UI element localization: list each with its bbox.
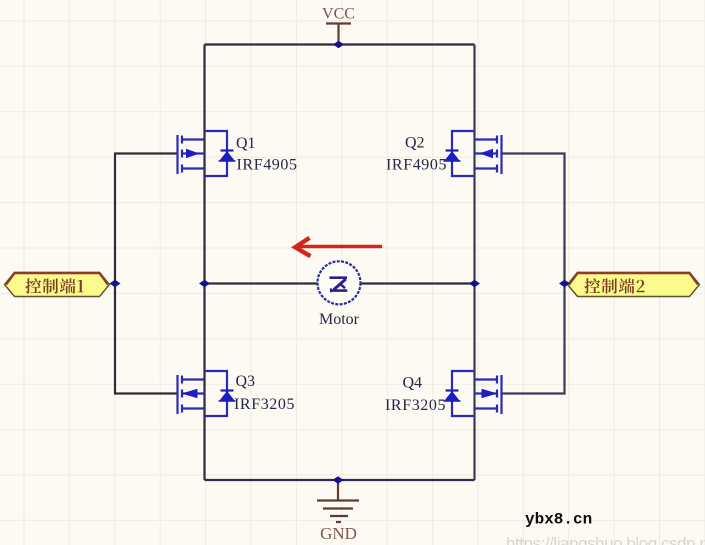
svg-text:Q1: Q1	[236, 135, 256, 152]
svg-text:IRF4905: IRF4905	[237, 157, 298, 174]
svg-text:ybx8.cn: ybx8.cn	[525, 511, 592, 529]
svg-text:IRF3205: IRF3205	[385, 397, 446, 414]
svg-text:IRF3205: IRF3205	[234, 396, 295, 413]
svg-text:VCC: VCC	[322, 6, 355, 23]
svg-text:Motor: Motor	[319, 311, 360, 328]
svg-text:Q2: Q2	[405, 135, 425, 152]
svg-text:https://liangshuo.blog.csdn.n: https://liangshuo.blog.csdn.n	[506, 534, 705, 545]
svg-text:Q4: Q4	[403, 375, 423, 392]
svg-text:Q3: Q3	[236, 373, 256, 390]
svg-text:IRF4905: IRF4905	[386, 157, 447, 174]
svg-text:GND: GND	[320, 524, 357, 543]
